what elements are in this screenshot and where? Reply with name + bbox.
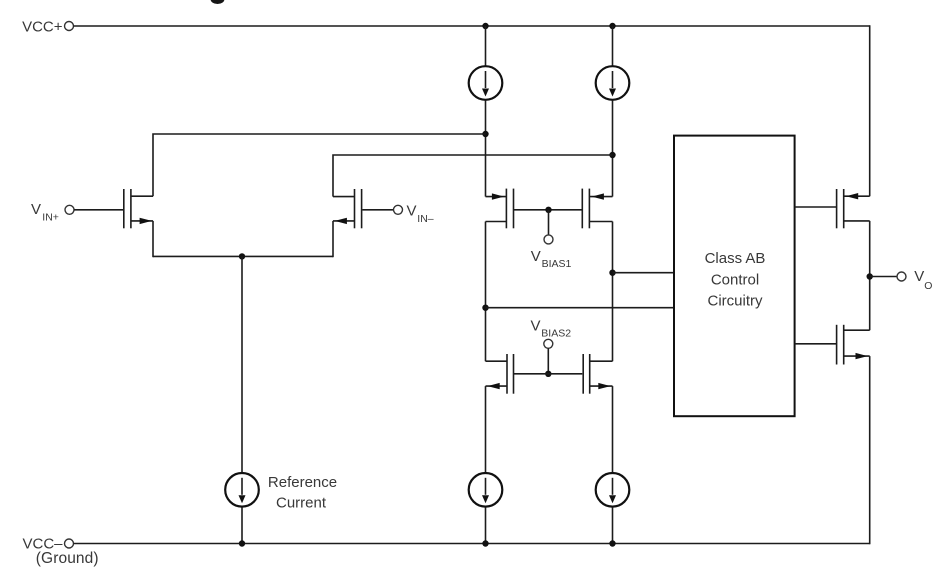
svg-text:O: O: [924, 280, 932, 292]
wire: Q5 source down to I3: [485, 386, 487, 472]
transistor Q3 (cascode left, V_BIAS1): [486, 189, 514, 229]
wire: bottom VCC- rail: [74, 543, 870, 545]
node: Q2 drain / I2 junction: [609, 152, 615, 158]
wire: V_BIAS2 stub: [547, 348, 549, 374]
svg-text:VCC+: VCC+: [22, 18, 63, 35]
clipped title text descender: [211, 0, 225, 4]
svg-text:V: V: [531, 318, 541, 335]
V_BIAS1 terminal: [544, 235, 553, 244]
current source I3: [469, 473, 503, 507]
wire: tail down to reference source: [241, 256, 243, 472]
svg-text:Control: Control: [711, 271, 759, 288]
current source I1: [469, 66, 503, 100]
V_IN+ terminal: [65, 205, 74, 214]
Class AB Control Circuitry box U1: [674, 136, 795, 417]
transistor Q1 (input, V_IN+): [124, 189, 153, 228]
wire: Q5-Q6 gate bus: [514, 373, 583, 375]
svg-text:Class AB: Class AB: [705, 250, 766, 267]
wire: Class AB output to Q8 gate: [795, 343, 836, 345]
V_IN- terminal: [394, 205, 403, 214]
node: output junction: [867, 273, 873, 279]
transistor Q7 (output PMOS): [837, 189, 870, 228]
node: tail junction: [239, 253, 245, 259]
wire: input pair tail: [153, 255, 333, 257]
current source I4: [596, 473, 630, 507]
wire: Q8 source down to VCC- rail: [869, 356, 871, 544]
VCC+ terminal: [65, 22, 74, 31]
wire: Q2 drain to I2 node: [333, 155, 613, 197]
wire: I2 bottom lead down to Q4: [612, 100, 614, 196]
node: top rail / I2 junction: [609, 23, 615, 29]
wire: top VCC+ rail: [74, 25, 870, 27]
wire: I4 to VCC- rail: [612, 507, 614, 543]
wire: Q3-Q4 gate bus: [514, 209, 583, 211]
svg-text:V: V: [914, 268, 924, 285]
svg-text:IN+: IN+: [42, 212, 59, 224]
wire: Class AB output to Q7 gate: [795, 206, 836, 208]
wire: V_IN+ lead to Q1 gate: [74, 209, 123, 211]
wire: left branch tap into Class AB box: [486, 307, 675, 309]
wire: I3 to VCC- rail: [485, 507, 487, 543]
node: V_BIAS1 junction: [545, 207, 551, 213]
node: V_BIAS2 junction: [545, 371, 551, 377]
wire: Q7 drain to output node: [869, 221, 871, 330]
svg-text:V: V: [407, 203, 417, 220]
svg-text:V: V: [531, 248, 541, 265]
wire: right branch tap into Class AB box: [613, 272, 675, 274]
wire: Q2 gate lead: [362, 209, 393, 211]
wire: Q2 source to tail node: [332, 221, 334, 257]
node: rail / I4: [609, 540, 615, 546]
node: right branch to Class AB tap: [609, 270, 615, 276]
svg-text:BIAS1: BIAS1: [542, 258, 572, 270]
transistor Q4 (cascode right, V_BIAS1): [582, 189, 612, 229]
transistor Q5 (mirror left, V_BIAS2): [486, 354, 514, 394]
svg-text:IN–: IN–: [417, 213, 434, 225]
wire: I1 bottom lead down to Q3: [485, 100, 487, 196]
wire: I1 top lead: [485, 26, 487, 66]
V_O terminal: [897, 272, 906, 281]
wire: reference source to VCC- rail: [241, 507, 243, 543]
node: left branch to Class AB tap: [482, 305, 488, 311]
wire: Q1 drain to I1 node: [153, 134, 486, 196]
transistor Q2 (input, V_IN-): [333, 189, 362, 228]
svg-text:V: V: [31, 201, 41, 218]
node: rail / I3: [482, 540, 488, 546]
current source I2: [596, 66, 630, 100]
wire: I2 top lead: [612, 26, 614, 66]
node: top rail / I1 junction: [482, 23, 488, 29]
svg-text:Circuitry: Circuitry: [708, 293, 763, 310]
wire: V_BIAS1 stub: [548, 210, 550, 235]
wire: Q1 source to tail node: [152, 221, 154, 257]
transistor Q8 (output NMOS): [837, 325, 870, 365]
wire: left cascode branch (Q3 drain to Q5 drain): [485, 222, 487, 362]
wire: Q6 source down to I4: [612, 386, 614, 472]
wire: right cascode branch (Q4 drain to Q6 drain): [612, 222, 614, 362]
svg-text:BIAS2: BIAS2: [541, 328, 571, 340]
current source I5 (reference): [225, 473, 259, 507]
VCC- terminal: [65, 539, 74, 548]
node: rail / reference source: [239, 540, 245, 546]
transistor Q6 (mirror right, V_BIAS2): [583, 354, 612, 394]
V_BIAS2 terminal: [544, 339, 553, 348]
svg-text:(Ground): (Ground): [36, 550, 99, 567]
node: Q1 drain / I1 junction: [482, 131, 488, 137]
svg-text:Current: Current: [276, 494, 327, 511]
wire: VCC+ rail down to Q7 source: [869, 25, 871, 196]
svg-text:Reference: Reference: [268, 474, 337, 491]
wire: output node to V_O terminal: [870, 276, 897, 278]
